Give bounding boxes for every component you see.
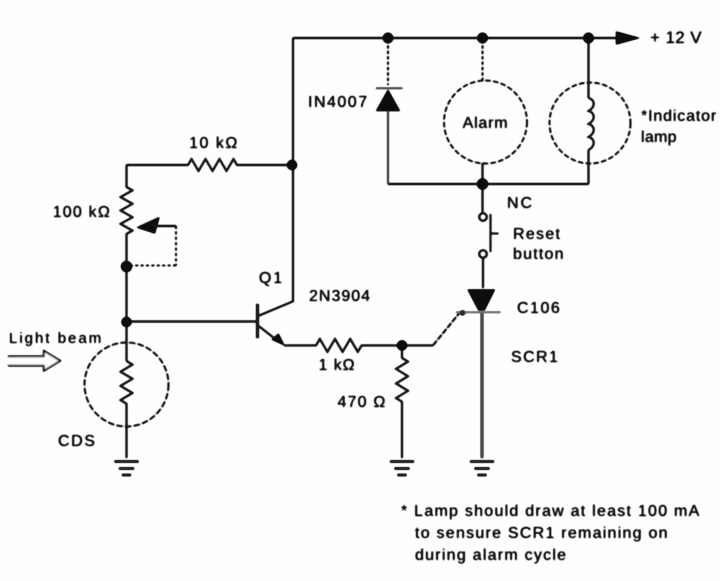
svg-text:IN4007: IN4007 <box>308 94 369 111</box>
svg-text:*Indicator: *Indicator <box>641 108 717 125</box>
svg-text:2N3904: 2N3904 <box>309 288 371 305</box>
svg-text:+ 12 V: + 12 V <box>650 28 702 47</box>
svg-text:during alarm cycle: during alarm cycle <box>415 547 567 564</box>
svg-text:Alarm: Alarm <box>463 115 509 132</box>
svg-text:NC: NC <box>507 195 534 212</box>
svg-text:Reset: Reset <box>513 226 561 243</box>
svg-text:* Lamp should draw at least 10: * Lamp should draw at least 100 mA <box>401 503 701 520</box>
svg-text:to sensure SCR1 remaining on: to sensure SCR1 remaining on <box>415 525 669 542</box>
svg-text:10 kΩ: 10 kΩ <box>189 135 239 152</box>
svg-text:470 Ω: 470 Ω <box>337 394 386 411</box>
svg-text:SCR1: SCR1 <box>511 349 559 366</box>
svg-text:Light beam: Light beam <box>9 330 103 347</box>
svg-text:CDS: CDS <box>58 433 97 450</box>
svg-text:C106: C106 <box>517 300 561 317</box>
svg-text:Q1: Q1 <box>259 270 284 287</box>
svg-text:100 kΩ: 100 kΩ <box>53 204 111 221</box>
svg-text:lamp: lamp <box>641 129 677 146</box>
svg-text:button: button <box>513 246 565 263</box>
svg-text:1 kΩ: 1 kΩ <box>319 357 356 374</box>
